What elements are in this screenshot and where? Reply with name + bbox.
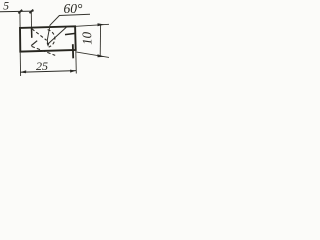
interior vertical edge V2 [72,44,74,58]
tick arrow right of dim 5 [30,10,34,14]
extension line right below (x=76) [75,51,78,74]
hidden line: short stroke D2 [31,41,37,46]
part outline rectangle [20,26,76,51]
dimension line for 5 [0,10,34,13]
leader arrowhead [47,43,50,47]
interior vertical edge V1 [31,28,33,38]
paper background [0,0,109,82]
hidden line: lower flank D3 [32,46,56,55]
dimension line for 25 [20,71,76,73]
extension line left (x=20) [19,12,21,27]
extension line left below (x=20) [19,52,21,76]
svg-text:5: 5 [3,1,9,13]
interior horizontal edge H4 [65,33,75,34]
arrow on top extension [98,23,105,26]
svg-text:60°: 60° [64,1,84,16]
svg-text:10: 10 [79,31,94,45]
arrow left of dim 25 [20,70,26,73]
extension line bottom slanted of dim 10 [76,52,109,58]
leader line of 60 callout [47,15,59,45]
hidden line: cone flank D1 [32,29,47,41]
dimension line vertical for 10 [99,25,101,57]
svg-text:25: 25 [36,59,48,73]
arrow right of dim 25 [70,70,76,73]
label shelf for 60 [59,14,90,15]
arrow on bottom extension [98,54,105,57]
extension line top of dim 10 [76,24,109,26]
hidden line: base arc [48,30,55,47]
tick arrow left of dim 5 [18,10,22,14]
extension line right (x=31.5) [30,12,32,28]
solid slant line L2 [49,27,67,44]
